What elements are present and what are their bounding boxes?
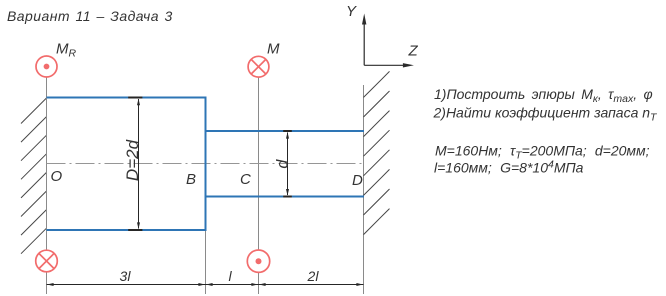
svg-text:C: C [240,171,251,188]
left wall line [46,84,48,234]
svg-text:MR: MR [56,41,77,60]
svg-text:l=160мм; G=8*104МПа: l=160мм; G=8*104МПа [434,159,584,176]
svg-text:Y: Y [346,3,357,20]
svg-text:Вариант 11 – Задача 3: Вариант 11 – Задача 3 [7,8,173,24]
svg-text:1)Построить эпюры Мк, τmax,: 1)Построить эпюры Мк, τmax, φ [434,86,653,105]
dimension D=2d [128,98,142,231]
axis Y [362,14,366,66]
wall + extension line at D (x=363.5) [363,85,365,294]
svg-text:2l: 2l [307,268,320,284]
right wall hatching [364,71,390,234]
left wall hatching [21,98,47,254]
dimension d [283,131,292,197]
bottom-middle moment symbol (circle with dot) [247,250,269,272]
svg-text:D=2d: D=2d [123,139,142,181]
extension line at C (x=258.3) [258,77,260,294]
moment MR symbol (circle with dot) [36,56,57,77]
svg-text:O: O [51,168,63,185]
svg-text:M: M [267,41,280,58]
svg-text:D: D [352,172,363,189]
svg-text:Z: Z [408,43,419,60]
svg-text:2)Найти коэффициент запаса nТ: 2)Найти коэффициент запаса nТ [433,105,659,124]
small cylinder outline (blue) [206,131,365,197]
extension line at O (x=46.4) [46,77,48,294]
big cylinder outline (blue) [47,97,207,232]
svg-text:3l: 3l [120,268,132,284]
bottom-left reaction symbol (circle with cross) [36,250,58,272]
centerline (dash-dot axis of shaft) [47,163,366,165]
svg-text:l: l [228,268,232,284]
extension line at B (x=205.3) [205,231,207,294]
axis Z [364,63,414,67]
svg-text:d: d [274,159,291,169]
moment M symbol (circle with cross) [248,56,269,77]
bottom dimension line [47,283,364,286]
svg-text:B: B [186,171,196,188]
